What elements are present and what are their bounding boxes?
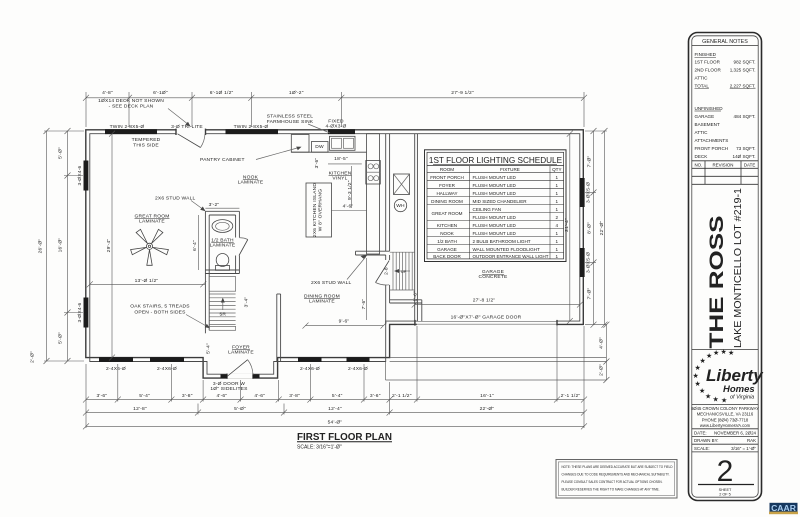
svg-text:LAMINATE: LAMINATE (228, 349, 254, 355)
svg-text:WALL MOUNTED FLOODLIGHT: WALL MOUNTED FLOODLIGHT (473, 247, 540, 252)
svg-text:BUILDER RESERVES THE RIGHT TO: BUILDER RESERVES THE RIGHT TO MAKE CHANG… (562, 487, 660, 492)
svg-text:of Virginia: of Virginia (730, 395, 754, 401)
svg-text:27'-8 1/2": 27'-8 1/2" (473, 297, 496, 303)
svg-text:16'-Ø"X7'-Ø" GARAGE DOOR: 16'-Ø"X7'-Ø" GARAGE DOOR (451, 314, 522, 320)
svg-text:54'-Ø": 54'-Ø" (328, 420, 343, 426)
bottom dim row2 ticks (83, 410, 587, 416)
svg-text:16'-1": 16'-1" (480, 393, 494, 399)
svg-text:1'-6": 1'-6" (413, 291, 419, 302)
svg-text:★: ★ (713, 349, 719, 357)
window W8 left wall (84, 161, 89, 191)
svg-text:2-4X6-Ø: 2-4X6-Ø (157, 366, 177, 372)
water heater circle (394, 199, 406, 211)
svg-text:W 8" OVERHANG: W 8" OVERHANG (318, 189, 324, 231)
kitchen right counter (367, 134, 380, 254)
svg-text:3'-8": 3'-8" (289, 393, 300, 399)
svg-text:★: ★ (728, 349, 734, 357)
svg-text:SHEET: SHEET (719, 488, 732, 492)
svg-text:www.LibertyHomesVA.com: www.LibertyHomesVA.com (700, 423, 751, 428)
dining-corridor door leaf and swing (376, 261, 390, 283)
svg-text:3'-4": 3'-4" (244, 297, 250, 308)
svg-text:5'-4": 5'-4" (205, 343, 211, 354)
svg-text:QTY: QTY (552, 167, 561, 172)
svg-text:OUTDOOR ENTRANCE WALL LIGHT: OUTDOOR ENTRANCE WALL LIGHT (473, 254, 549, 259)
svg-text:SCALE: 3/16"=1'-Ø": SCALE: 3/16"=1'-Ø" (297, 445, 342, 451)
bath sink (212, 220, 233, 233)
general notes text (695, 52, 729, 159)
front porch floor lines (390, 357, 607, 359)
svg-text:ATTIC: ATTIC (695, 130, 709, 135)
svg-text:6'-4": 6'-4" (192, 240, 198, 251)
window W9 left wall (84, 298, 89, 328)
front door sidelites (221, 374, 228, 378)
svg-text:1ST FLOOR LIGHTING SCHEDULE: 1ST FLOOR LIGHTING SCHEDULE (429, 156, 563, 165)
svg-text:2'-1 1/2": 2'-1 1/2" (392, 393, 412, 399)
dining dim 9-6 (306, 325, 384, 327)
svg-text:1,325 SQFT.: 1,325 SQFT. (730, 68, 756, 73)
svg-text:GARAGE: GARAGE (437, 247, 457, 252)
tri-lite door leaf and swing (178, 134, 201, 148)
interior dim 13-0 1/2 (90, 283, 206, 285)
svg-text:4'-8": 4'-8" (102, 90, 113, 96)
svg-text:2'-Ø": 2'-Ø" (599, 364, 605, 376)
svg-text:FLUSH MOUNT LED: FLUSH MOUNT LED (473, 215, 517, 220)
svg-text:KITCHEN: KITCHEN (437, 223, 457, 228)
svg-text:★: ★ (705, 393, 711, 401)
top dim extension lines (86, 92, 584, 127)
furnace box (394, 174, 410, 195)
svg-text:ATTIC: ATTIC (695, 76, 709, 81)
logo stars arc (693, 348, 735, 405)
garage interior dim (415, 304, 580, 306)
svg-text:★: ★ (713, 396, 719, 404)
svg-text:FINISHED: FINISHED (695, 52, 717, 57)
exterior wall outer face (86, 130, 584, 378)
svg-text:THE ROSS: THE ROSS (707, 216, 728, 349)
svg-text:DATE: DATE (744, 162, 755, 167)
svg-text:FLUSH MOUNT LED: FLUSH MOUNT LED (473, 183, 517, 188)
left dim ticks (44, 128, 71, 364)
svg-text:27'-9 1/2": 27'-9 1/2" (451, 90, 474, 96)
window W3 fixed 4-0x3-0 (328, 129, 355, 134)
svg-text:3'-6": 3'-6" (370, 393, 381, 399)
svg-text:982 SQFT.: 982 SQFT. (734, 60, 756, 65)
svg-text:3'-2": 3'-2" (209, 202, 220, 208)
svg-text:PANTRY CABINET: PANTRY CABINET (200, 157, 245, 163)
up stairs arrow (397, 270, 410, 272)
svg-text:GARAGE: GARAGE (695, 114, 715, 119)
svg-text:CHANGES DUE TO CODE REQUIREMEN: CHANGES DUE TO CODE REQUIREMENTS AND MEC… (562, 472, 670, 477)
svg-text:2X6 STUD WALL: 2X6 STUD WALL (311, 280, 352, 286)
svg-text:FIXTURE: FIXTURE (500, 167, 520, 172)
svg-text:SCALE:: SCALE: (694, 446, 710, 451)
svg-text:FLUSH MOUNT LED: FLUSH MOUNT LED (473, 223, 517, 228)
svg-text:14Ø SQFT.: 14Ø SQFT. (733, 154, 756, 159)
svg-text:4'-Ø": 4'-Ø" (599, 337, 605, 349)
window W10 garage right wall (580, 178, 585, 207)
svg-text:OAK STAIRS, 5 TREADS: OAK STAIRS, 5 TREADS (130, 303, 190, 309)
svg-text:WH: WH (396, 203, 405, 209)
svg-text:8Ø45 CROWN COLONY PARKWAY: 8Ø45 CROWN COLONY PARKWAY (691, 406, 759, 411)
svg-text:3/16" = 1'-Ø": 3/16" = 1'-Ø" (731, 446, 756, 451)
mud hall south wall (390, 299, 422, 301)
svg-text:FLUSH MOUNT LED: FLUSH MOUNT LED (473, 231, 517, 236)
svg-text:4-ØX3-Ø: 4-ØX3-Ø (326, 124, 347, 130)
svg-text:NOTE: THESE PLANS ARE DEEMED A: NOTE: THESE PLANS ARE DEEMED ACCURATE BU… (562, 464, 673, 469)
oak stairs up arrow (222, 301, 224, 310)
svg-text:1: 1 (556, 239, 559, 244)
svg-text:21'-4": 21'-4" (564, 218, 570, 232)
svg-text:3'-6": 3'-6" (314, 158, 320, 169)
tri-lite door opening (176, 129, 206, 135)
svg-text:4'-6": 4'-6" (343, 203, 354, 209)
svg-text:2'-1 1/2": 2'-1 1/2" (561, 393, 581, 399)
svg-text:7'-6": 7'-6" (361, 299, 367, 310)
svg-text:LAKE MONTICELLO LOT #219-1: LAKE MONTICELLO LOT #219-1 (732, 188, 744, 348)
bath north wall (205, 210, 239, 212)
svg-text:9'-3 1/2": 9'-3 1/2" (347, 180, 353, 200)
svg-text:12'-4": 12'-4" (328, 406, 342, 412)
logo section separator (692, 349, 758, 351)
note box (556, 460, 677, 499)
svg-text:2 OF 5: 2 OF 5 (719, 493, 731, 497)
bottom dim row1 ticks (83, 397, 587, 403)
svg-text:VINYL: VINYL (332, 176, 347, 182)
svg-text:1ST FLOOR: 1ST FLOOR (695, 60, 721, 65)
porch dim line (605, 325, 607, 380)
svg-text:2: 2 (556, 215, 559, 220)
bath toilet (216, 254, 229, 267)
svg-text:★: ★ (721, 348, 727, 356)
svg-text:16'-Ø": 16'-Ø" (58, 238, 64, 253)
svg-text:1: 1 (556, 191, 559, 196)
right dim lines (593, 131, 595, 325)
svg-text:CEILING FAN: CEILING FAN (473, 207, 502, 212)
svg-text:5R: 5R (219, 312, 226, 318)
svg-text:Homes: Homes (723, 384, 755, 395)
general notes header box (692, 45, 758, 47)
bottom dim extension lines (86, 326, 584, 428)
range (366, 161, 381, 185)
svg-text:UNFINISHED: UNFINISHED (695, 106, 724, 111)
title block outer border (689, 33, 762, 501)
svg-text:RAK: RAK (747, 438, 756, 443)
svg-text:4: 4 (556, 223, 559, 228)
svg-text:HALLWAY: HALLWAY (436, 191, 457, 196)
dining dim 7-6 (366, 258, 368, 320)
svg-text:★: ★ (721, 397, 727, 405)
bath-stair west wall (204, 211, 206, 333)
bottom dim row3 line (86, 425, 584, 427)
svg-text:ATTACHMENTS: ATTACHMENTS (695, 138, 729, 143)
svg-text:22'-Ø": 22'-Ø" (599, 221, 605, 236)
svg-text:5'-Ø": 5'-Ø" (58, 332, 64, 344)
svg-text:2,227 SQFT.: 2,227 SQFT. (730, 84, 756, 89)
garage door threshold lines (415, 320, 557, 322)
svg-text:LAMINATE: LAMINATE (238, 180, 264, 186)
svg-text:2 BULB BATHROOM LIGHT: 2 BULB BATHROOM LIGHT (473, 239, 531, 244)
garage interior vertical dim (567, 131, 573, 137)
svg-text:BACK DOOR: BACK DOOR (433, 254, 461, 259)
svg-text:DW: DW (315, 144, 324, 150)
left dim lines (46, 131, 48, 361)
svg-text:TOTAL: TOTAL (695, 84, 710, 89)
bottom dim row2 line (86, 412, 584, 414)
dishwasher (312, 142, 329, 153)
svg-text:2-4X6-Ø: 2-4X6-Ø (300, 366, 320, 372)
svg-text:2X6 STUD WALL: 2X6 STUD WALL (155, 195, 196, 201)
svg-text:BASEMENT: BASEMENT (695, 122, 720, 127)
exterior wall inner face (90, 134, 580, 375)
svg-text:1: 1 (556, 199, 559, 204)
bath dim 3-2 (205, 207, 239, 209)
lighting schedule table (425, 150, 567, 262)
svg-text:FOYER: FOYER (439, 183, 456, 188)
title block inner border (692, 36, 758, 497)
svg-text:TWIN 2-8X5-Ø: TWIN 2-8X5-Ø (110, 124, 145, 130)
window W6 (298, 357, 322, 362)
svg-text:7'-Ø": 7'-Ø" (587, 156, 593, 168)
svg-text:LAMINATE: LAMINATE (139, 219, 165, 225)
foyer-dining wall (276, 294, 278, 362)
date drawn scale rows (692, 429, 758, 452)
svg-text:1: 1 (556, 231, 559, 236)
svg-text:12'-8": 12'-8" (133, 406, 147, 412)
svg-text:6'-1Ø": 6'-1Ø" (153, 90, 168, 96)
svg-text:★: ★ (693, 372, 699, 380)
svg-text:1Ø'-2": 1Ø'-2" (289, 90, 304, 96)
svg-text:2X6 KITCHEN ISLAND: 2X6 KITCHEN ISLAND (312, 183, 318, 237)
svg-text:DINING ROOM: DINING ROOM (431, 199, 463, 204)
svg-text:GENERAL NOTES: GENERAL NOTES (702, 39, 748, 45)
svg-text:73 SQFT.: 73 SQFT. (736, 146, 755, 151)
svg-text:Liberty: Liberty (706, 366, 764, 385)
bath dim 6-4 (198, 215, 200, 270)
dining east wall segment (389, 255, 391, 260)
svg-text:1: 1 (556, 247, 559, 252)
svg-text:ROOM: ROOM (440, 167, 454, 172)
svg-text:MID SIZED CHANDELIER: MID SIZED CHANDELIER (473, 199, 528, 204)
garage interior vertical dim line (569, 134, 571, 321)
kitchen east / corridor west wall (389, 134, 391, 252)
revision table (692, 161, 758, 185)
svg-text:UP: UP (401, 270, 407, 274)
svg-text:★: ★ (695, 380, 701, 388)
garage door opening (white) (417, 320, 557, 326)
svg-text:★: ★ (695, 364, 701, 372)
window W1 twin 2-8x5-0 (105, 129, 157, 134)
svg-text:1Ø" SIDELITES: 1Ø" SIDELITES (210, 386, 248, 392)
svg-text:STAINLESS STEEL: STAINLESS STEEL (267, 114, 313, 120)
svg-text:MECHANICSVILLE, VA 23116: MECHANICSVILLE, VA 23116 (697, 412, 754, 417)
CAAR logo (770, 503, 798, 513)
svg-text:3'-8": 3'-8" (182, 393, 193, 399)
svg-text:REVISION: REVISION (713, 162, 734, 167)
bath door leaf and swing (239, 240, 248, 256)
pantry cabinet (291, 135, 309, 153)
window W5 (150, 357, 184, 362)
svg-text:★: ★ (700, 357, 706, 365)
svg-text:PLEASE CONSULT SALES CONTRACT: PLEASE CONSULT SALES CONTRACT FOR ACTUAL… (562, 479, 663, 484)
address block (691, 406, 759, 428)
oak stairs bottom landing (209, 326, 235, 330)
bottom dim row1 line (86, 399, 584, 401)
right dim ticks (591, 128, 608, 328)
svg-text:2ND FLOOR: 2ND FLOOR (695, 68, 722, 73)
right dim extensions (585, 131, 607, 325)
svg-text:DATE:: DATE: (694, 430, 707, 435)
front door opening (227, 374, 253, 379)
svg-text:4'-6": 4'-6" (217, 393, 228, 399)
svg-text:5'-Ø": 5'-Ø" (234, 406, 246, 412)
kitchen island (306, 183, 332, 237)
svg-text:1: 1 (556, 175, 559, 180)
svg-text:5'-4": 5'-4" (332, 393, 343, 399)
svg-text:22'-Ø": 22'-Ø" (480, 406, 495, 412)
svg-text:4'-6": 4'-6" (254, 393, 265, 399)
svg-text:484 SQFT.: 484 SQFT. (734, 114, 756, 119)
svg-text:7'-Ø": 7'-Ø" (587, 288, 593, 300)
svg-text:8'-Ø": 8'-Ø" (587, 222, 593, 234)
svg-text:FIXED: FIXED (328, 119, 344, 125)
svg-text:1: 1 (556, 183, 559, 188)
svg-text:2-8: 2-8 (384, 267, 390, 275)
svg-text:1/2 BATH: 1/2 BATH (437, 239, 457, 244)
top dim ticks (83, 95, 587, 101)
corridor east / garage west wall (414, 134, 416, 321)
svg-text:★: ★ (706, 352, 712, 360)
svg-text:DECK: DECK (695, 154, 709, 159)
oak stairs treads (209, 294, 235, 324)
kitchen top counter edge (291, 151, 366, 153)
note text (562, 464, 673, 492)
window W4 (99, 357, 133, 362)
svg-text:1: 1 (556, 254, 559, 259)
ceiling fan (131, 229, 169, 265)
svg-text:1: 1 (556, 207, 559, 212)
svg-text:FRONT PORCH: FRONT PORCH (430, 175, 464, 180)
svg-text:13'-Ø 1/2": 13'-Ø 1/2" (135, 278, 159, 284)
svg-text:3'-6": 3'-6" (97, 393, 108, 399)
svg-text:GREAT ROOM: GREAT ROOM (432, 211, 463, 216)
svg-text:FLUSH MOUNT LED: FLUSH MOUNT LED (473, 191, 517, 196)
garage door jambs (414, 320, 416, 326)
svg-text:CAAR: CAAR (771, 503, 797, 513)
svg-text:2: 2 (717, 455, 734, 488)
svg-text:5'-Ø": 5'-Ø" (58, 147, 64, 159)
svg-text:2'-Ø": 2'-Ø" (30, 351, 36, 363)
top dimension line (86, 97, 584, 99)
svg-text:DRAWN BY:: DRAWN BY: (694, 438, 718, 443)
svg-text:FIRST FLOOR PLAN: FIRST FLOOR PLAN (297, 431, 392, 443)
svg-text:FLUSH MOUNT LED: FLUSH MOUNT LED (473, 175, 517, 180)
kitchen-dining wall (356, 250, 390, 252)
svg-text:29'-4": 29'-4" (106, 239, 112, 253)
svg-text:1/2 BATH: 1/2 BATH (211, 238, 234, 244)
svg-text:26'-Ø": 26'-Ø" (38, 239, 44, 254)
svg-text:LAMINATE: LAMINATE (210, 243, 236, 249)
svg-text:LAMINATE: LAMINATE (309, 298, 335, 304)
left dim extensions (44, 131, 84, 361)
svg-text:OPEN - BOTH SIDES: OPEN - BOTH SIDES (134, 309, 186, 315)
svg-text:5'-4": 5'-4" (139, 393, 150, 399)
window W2 twin 2-8x5-0 (226, 129, 279, 134)
svg-text:18'-5": 18'-5" (334, 156, 348, 162)
svg-text:NOOK: NOOK (440, 231, 454, 236)
bath south wall (205, 269, 239, 271)
svg-text:- SEE DECK PLAN: - SEE DECK PLAN (109, 104, 154, 110)
great room interior dim 29-4 (111, 134, 113, 358)
svg-text:CONCRETE: CONCRETE (478, 274, 508, 280)
window W7 (347, 357, 370, 362)
Liberty Homes logo (706, 366, 764, 401)
svg-text:FRONT PORCH: FRONT PORCH (695, 146, 729, 151)
svg-text:NO.: NO. (694, 162, 702, 167)
svg-text:PHONE (8Ø4) 73Ø-7718: PHONE (8Ø4) 73Ø-7718 (702, 417, 749, 422)
front door leaf and swing (227, 360, 248, 377)
window W11 garage right wall (580, 248, 585, 277)
svg-text:TEMPERED: TEMPERED (132, 137, 161, 143)
svg-text:2-4X6-Ø: 2-4X6-Ø (348, 366, 368, 372)
up stairs treads (390, 252, 415, 290)
bath east wall (238, 211, 240, 237)
svg-text:2-4X6-Ø: 2-4X6-Ø (106, 366, 126, 372)
stair landing box (209, 277, 235, 292)
svg-text:NOVEMBER 6, 2Ø24: NOVEMBER 6, 2Ø24 (714, 430, 757, 435)
svg-text:6'-1Ø 1/2": 6'-1Ø 1/2" (210, 90, 234, 96)
svg-text:1ØX14 DECK NOT SHOWN: 1ØX14 DECK NOT SHOWN (98, 98, 164, 104)
farmhouse sink (330, 136, 356, 150)
svg-text:FARMHOUSE SINK: FARMHOUSE SINK (267, 119, 314, 125)
address separator (692, 404, 758, 406)
svg-text:THIS SIDE: THIS SIDE (133, 143, 159, 149)
svg-text:9'-6": 9'-6" (339, 319, 350, 325)
